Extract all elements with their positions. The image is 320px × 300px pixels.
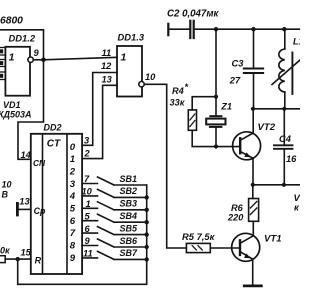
svg-text:16: 16 — [286, 154, 297, 164]
svg-text:6: 6 — [85, 224, 91, 234]
svg-text:5: 5 — [70, 204, 76, 215]
svg-text:15: 15 — [21, 248, 32, 258]
svg-text:L1: L1 — [293, 37, 300, 47]
svg-text:SB4: SB4 — [120, 211, 138, 221]
svg-text:CT: CT — [47, 139, 61, 150]
svg-text:9: 9 — [34, 48, 40, 58]
svg-text:9: 9 — [70, 253, 76, 264]
svg-text:Z1: Z1 — [220, 102, 232, 112]
svg-text:12: 12 — [101, 61, 112, 71]
svg-text:13: 13 — [19, 197, 30, 207]
svg-text:В: В — [2, 189, 9, 199]
svg-text:C4: C4 — [279, 134, 292, 144]
svg-text:1: 1 — [70, 154, 75, 165]
svg-text:1: 1 — [86, 199, 91, 209]
svg-text:DD2: DD2 — [44, 122, 62, 132]
svg-text:R6: R6 — [231, 203, 244, 213]
svg-text:1: 1 — [9, 52, 15, 64]
svg-text:7: 7 — [70, 228, 76, 239]
svg-text:8: 8 — [70, 240, 76, 251]
svg-text:1: 1 — [121, 52, 127, 64]
svg-text:VT1: VT1 — [264, 233, 282, 244]
svg-text:Cp: Cp — [34, 206, 46, 216]
svg-text:2: 2 — [84, 149, 91, 159]
svg-text:4: 4 — [69, 191, 76, 202]
svg-text:SB1: SB1 — [120, 174, 138, 184]
svg-text:7: 7 — [84, 174, 90, 184]
svg-text:3: 3 — [70, 179, 76, 190]
svg-text:R: R — [35, 256, 42, 266]
svg-text:SB6: SB6 — [120, 236, 139, 246]
svg-text:КД503А: КД503А — [0, 109, 32, 119]
svg-text:DD1.2: DD1.2 — [9, 32, 36, 43]
svg-text:3: 3 — [84, 135, 90, 145]
svg-text:10: 10 — [82, 187, 93, 197]
svg-text:6800: 6800 — [0, 16, 23, 27]
svg-text:11: 11 — [102, 48, 112, 58]
svg-text:SB2: SB2 — [120, 186, 138, 196]
svg-text:220: 220 — [227, 212, 244, 222]
svg-text:10: 10 — [145, 72, 156, 82]
svg-text:C3: C3 — [232, 58, 245, 68]
svg-text:DD1.3: DD1.3 — [118, 31, 145, 42]
svg-text:C2 0,047мк: C2 0,047мк — [167, 9, 219, 20]
svg-text:VT2: VT2 — [258, 122, 276, 133]
svg-text:SB5: SB5 — [120, 223, 139, 233]
svg-text:*: * — [185, 82, 189, 92]
svg-text:10: 10 — [2, 179, 12, 189]
svg-text:33к: 33к — [170, 98, 186, 108]
svg-text:0к: 0к — [0, 245, 10, 255]
svg-text:6: 6 — [70, 216, 76, 227]
svg-text:R4: R4 — [172, 86, 184, 96]
svg-text:9: 9 — [85, 236, 91, 246]
svg-text:14: 14 — [21, 150, 32, 160]
svg-text:CN: CN — [33, 158, 46, 168]
svg-text:11: 11 — [83, 249, 93, 259]
svg-text:2: 2 — [69, 167, 76, 178]
svg-text:R5 7,5к: R5 7,5к — [182, 231, 216, 242]
svg-text:13: 13 — [102, 75, 113, 85]
svg-text:5: 5 — [85, 211, 91, 221]
svg-text:27: 27 — [229, 75, 241, 85]
svg-text:0: 0 — [70, 142, 76, 153]
svg-text:SB7: SB7 — [120, 248, 139, 258]
svg-text:SB3: SB3 — [120, 199, 138, 209]
